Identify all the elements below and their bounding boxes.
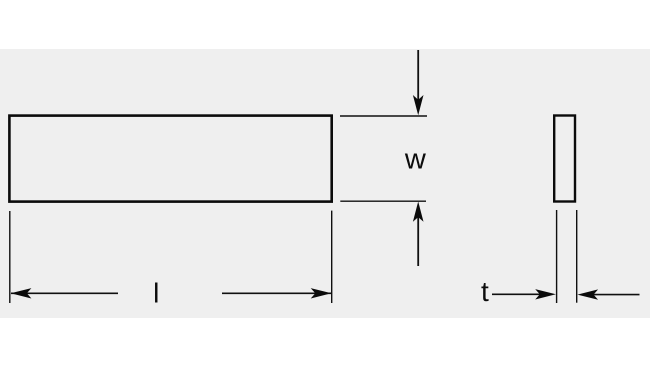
w lower arrowhead (points up) [413, 202, 424, 222]
l right arrowhead (points right) [311, 288, 332, 298]
t extension line left [556, 210, 558, 303]
l extension line right [331, 211, 333, 303]
l extension line left [9, 211, 11, 303]
svg-text:w: w [404, 144, 427, 176]
w extension line bottom [340, 200, 426, 202]
w extension line top [340, 115, 427, 117]
l dimension line left segment [11, 292, 118, 294]
gray drawing panel [0, 49, 650, 318]
t extension line right [576, 210, 578, 303]
l left arrowhead (points left) [11, 288, 32, 298]
w dimension line upper shaft [417, 50, 419, 110]
svg-text:l: l [153, 278, 159, 309]
svg-text:t: t [481, 276, 489, 307]
t dimension line right shaft [583, 294, 640, 296]
t dimension line left shaft [492, 293, 550, 295]
flat bar front view rectangle [9, 116, 331, 202]
flat bar end (cross-section) view rectangle [554, 116, 575, 202]
w dimension line lower shaft [417, 207, 419, 266]
t left arrowhead (points right) [535, 289, 556, 299]
w upper arrowhead (points down) [413, 95, 424, 115]
l dimension line right segment [222, 292, 331, 294]
t right arrowhead (points left) [577, 289, 598, 299]
